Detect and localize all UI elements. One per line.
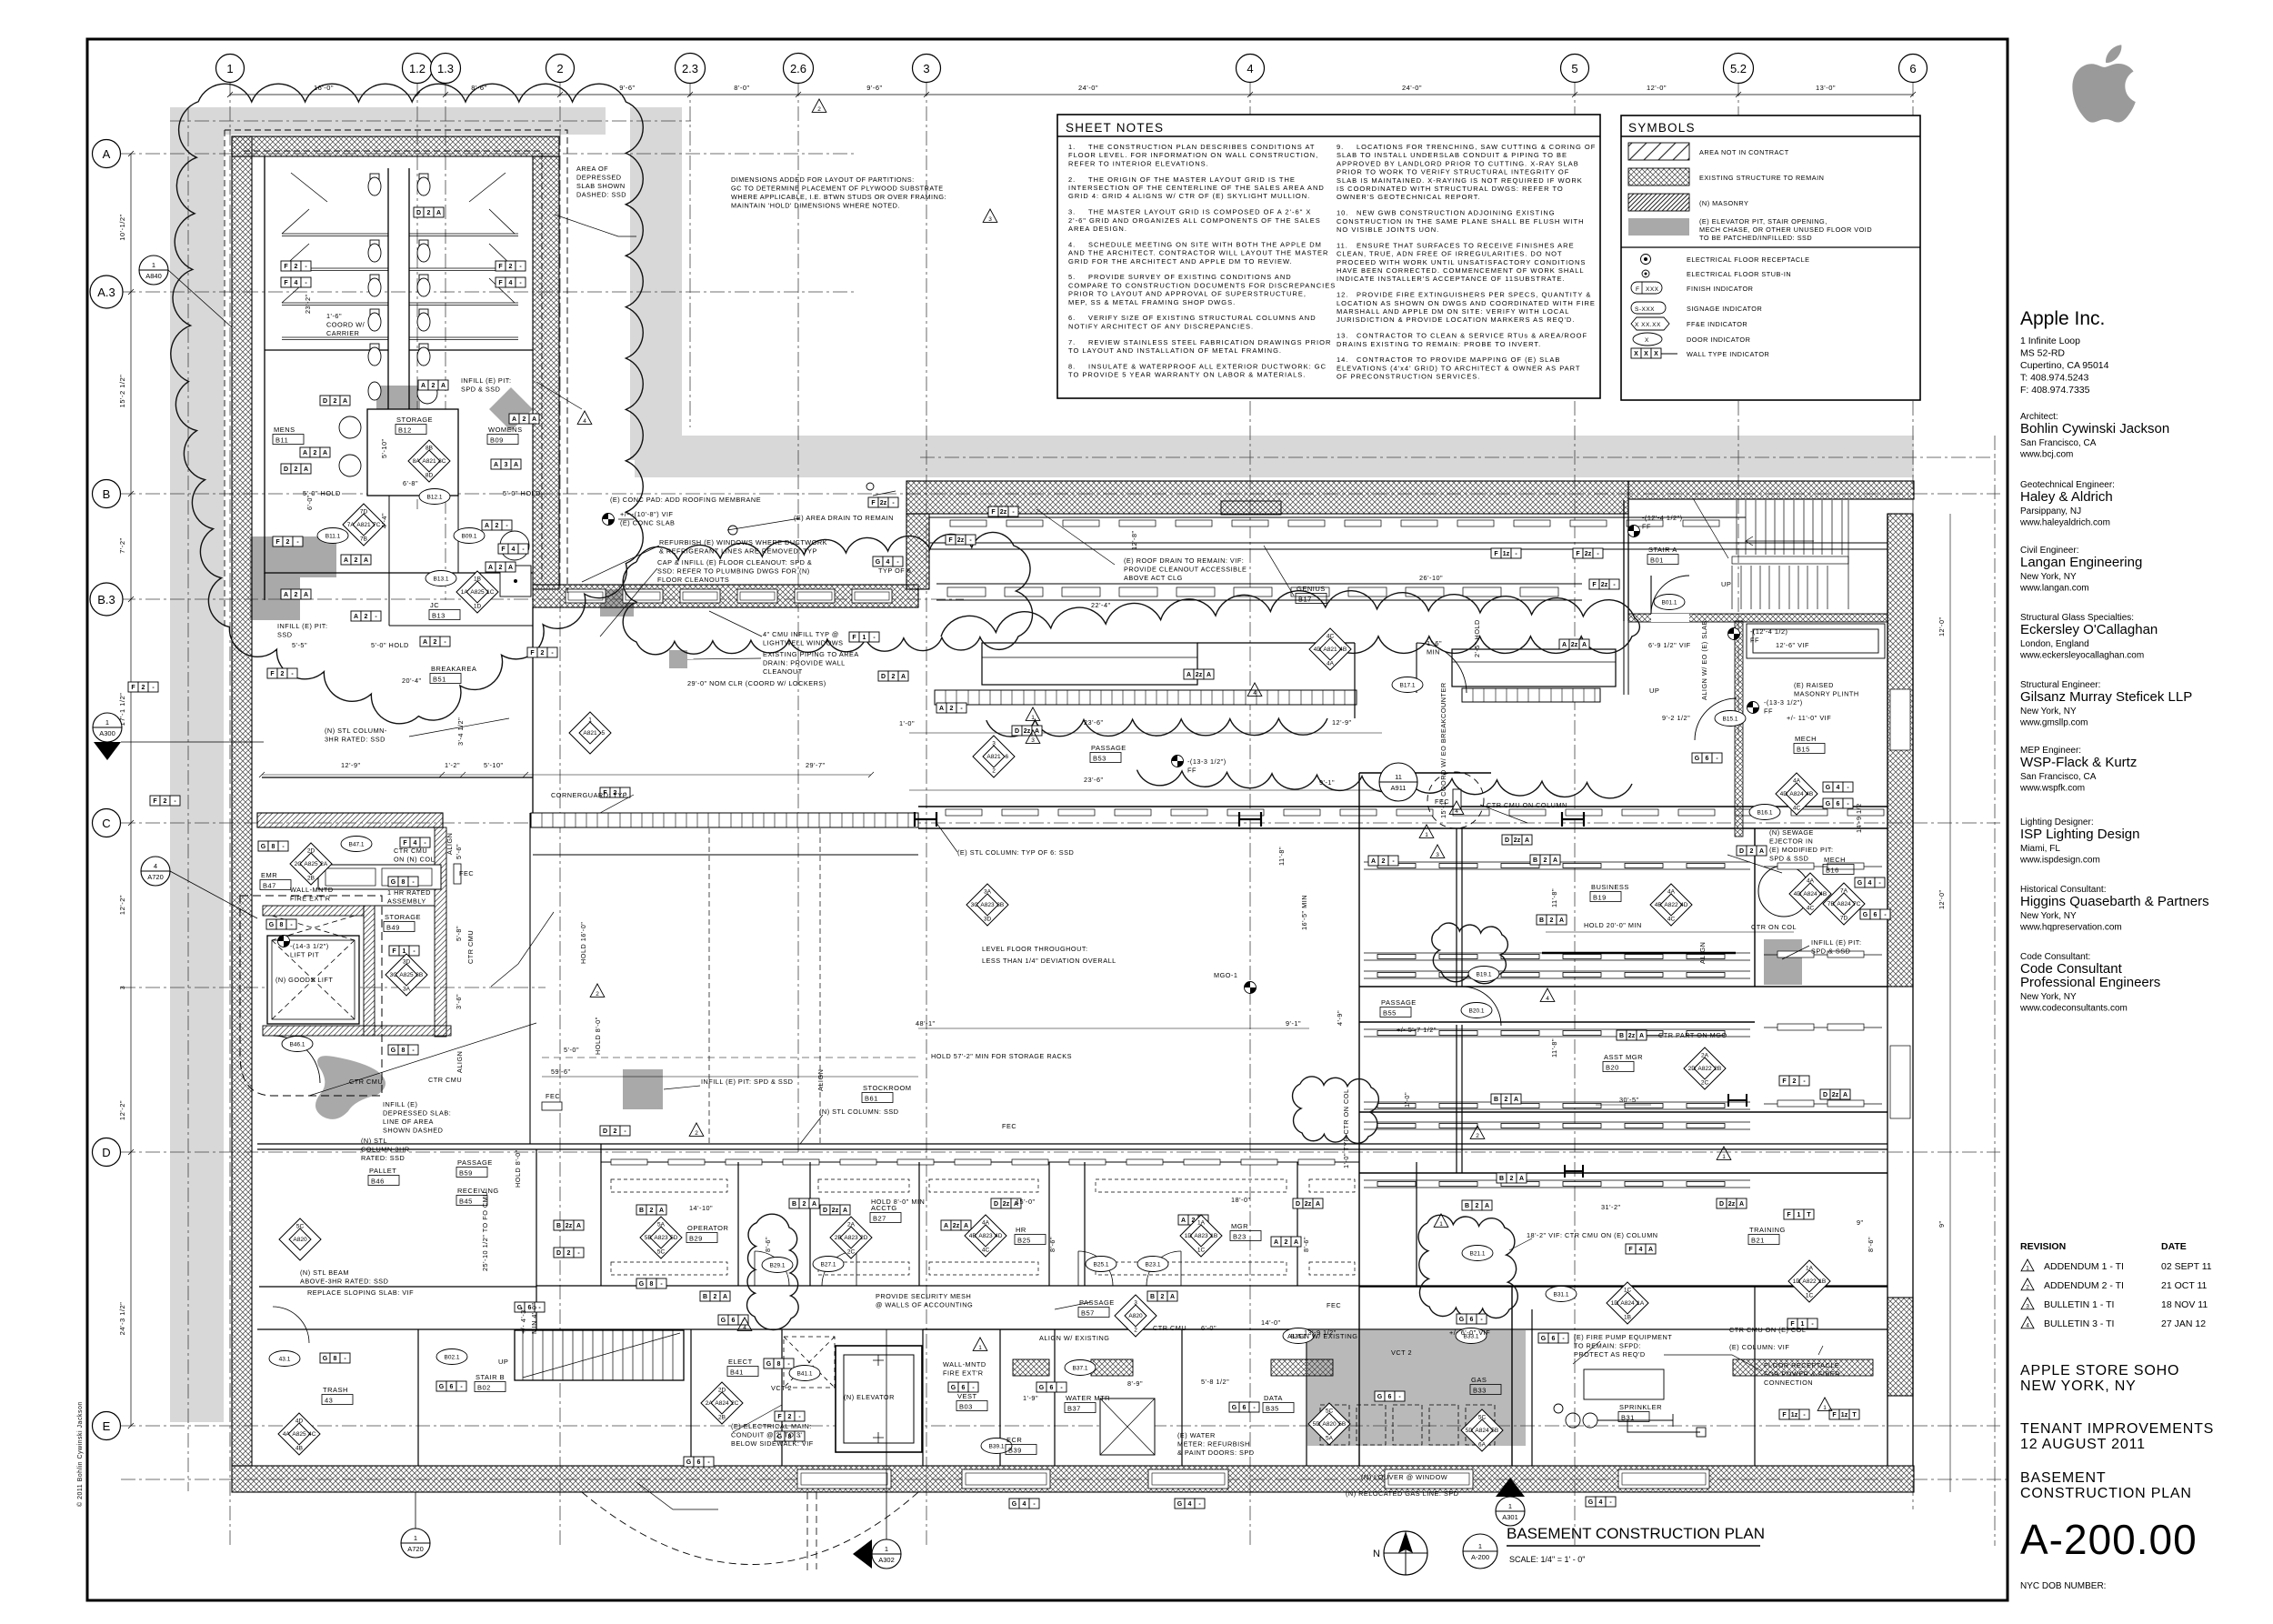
stair A room (1624, 500, 1628, 621)
svg-text:& REFRIGERANT LINES ARE REMOVE: & REFRIGERANT LINES ARE REMOVED: TYP (659, 547, 817, 556)
storefront lines (929, 517, 1887, 589)
infill pit toilet diamond (489, 387, 533, 431)
lightwell south wall (533, 585, 918, 607)
svg-text:2: 2 (714, 1294, 717, 1300)
svg-text:F: F (270, 671, 275, 677)
svg-text:1'-9": 1'-9" (1023, 1394, 1038, 1402)
svg-text:5'-10": 5'-10" (380, 438, 388, 458)
svg-text:B: B (703, 1294, 707, 1300)
svg-text:SLAB IS MAINTAINED. X-RAYING I: SLAB IS MAINTAINED. X-RAYING IS NOT REQU… (1337, 176, 1583, 185)
svg-text:(E) CONC PAD: ADD ROOFING MEMB: (E) CONC PAD: ADD ROOFING MEMBRANE (610, 496, 761, 504)
svg-text:6: 6 (1909, 62, 1916, 75)
svg-text:5'-10": 5'-10" (484, 761, 504, 769)
svg-text:Bohlin Cywinski Jackson: Bohlin Cywinski Jackson (2020, 421, 2169, 436)
svg-text:A911: A911 (1391, 784, 1407, 792)
svg-text:CAP & INFILL (E) FLOOR CLEANOU: CAP & INFILL (E) FLOOR CLEANOUT: SPD & (657, 558, 812, 566)
svg-text:2: 2 (541, 650, 545, 657)
svg-text:12'-9": 12'-9" (1332, 718, 1352, 727)
svg-text:2: 2 (434, 639, 437, 646)
legend area not in contract (1628, 143, 1689, 160)
svg-text:(N) STL BEAM: (N) STL BEAM (300, 1268, 349, 1277)
svg-text:WOMENS: WOMENS (488, 426, 523, 434)
svg-text:2C: 2C (731, 1400, 739, 1407)
elevator (836, 1346, 922, 1452)
svg-text:A: A (421, 383, 426, 389)
section marker A302 (872, 1539, 901, 1569)
svg-text:3: 3 (505, 462, 508, 468)
svg-text:A820: A820 (1322, 1421, 1337, 1428)
svg-text:BASEMENT CONSTRUCTION PLAN: BASEMENT CONSTRUCTION PLAN (1507, 1525, 1765, 1542)
svg-text:6: 6 (450, 1384, 454, 1390)
svg-text:F: F (153, 798, 157, 805)
svg-text:A: A (1553, 857, 1557, 864)
svg-text:2D: 2D (860, 1235, 868, 1241)
svg-text:AREA OF: AREA OF (576, 165, 608, 173)
svg-text:2z: 2z (566, 1223, 573, 1229)
svg-text:SCALE: 1/4" = 1' - 0": SCALE: 1/4" = 1' - 0" (1509, 1555, 1585, 1564)
svg-text:www.haleyaldrich.com: www.haleyaldrich.com (2019, 518, 2110, 528)
symbols box (1621, 115, 1920, 400)
receiving north line (533, 854, 918, 856)
svg-text:A: A (1371, 858, 1376, 865)
svg-text:5C: 5C (1478, 1414, 1487, 1420)
svg-text:PASSAGE: PASSAGE (1381, 998, 1417, 1007)
svg-text:2: 2 (2026, 1285, 2029, 1291)
svg-text:LOCATIONS FOR TRENCHING, SAW C: LOCATIONS FOR TRENCHING, SAW CUTTING & C… (1357, 143, 1596, 151)
svg-text:4: 4 (509, 280, 513, 286)
svg-text:GC TO DETERMINE PLACEMENT OF P: GC TO DETERMINE PLACEMENT OF PLYWOOD SUB… (731, 185, 944, 193)
svg-text:8: 8 (777, 1361, 781, 1368)
svg-text:29'-0" NOM CLR (COORD W/ LOCKE: 29'-0" NOM CLR (COORD W/ LOCKERS) (687, 679, 826, 687)
svg-text:3D: 3D (984, 917, 992, 923)
svg-text:RECEIVING: RECEIVING (457, 1187, 499, 1195)
svg-text:2z: 2z (957, 537, 965, 544)
svg-text:7D: 7D (360, 508, 368, 515)
svg-text:2: 2 (286, 539, 290, 546)
svg-text:A: A (843, 1208, 847, 1214)
svg-text:2: 2 (1510, 1176, 1514, 1182)
svg-text:22'-4": 22'-4" (1091, 601, 1111, 609)
svg-text:TO LAYOUT AND INSTALLATION OF: TO LAYOUT AND INSTALLATION OF METAL FRAM… (1068, 346, 1282, 355)
svg-text:13'-0": 13'-0" (1816, 84, 1836, 92)
svg-text:XXX: XXX (1646, 286, 1659, 293)
svg-text:Higgins Quasebarth & Partners: Higgins Quasebarth & Partners (2020, 894, 2209, 909)
genius bench strip (935, 690, 1357, 705)
svg-text:A720: A720 (147, 873, 164, 881)
svg-text:ELECTRICAL FLOOR RECEPTACLE: ELECTRICAL FLOOR RECEPTACLE (1687, 256, 1810, 264)
svg-text:A: A (1485, 1203, 1489, 1209)
svg-text:18'-0": 18'-0" (1231, 1196, 1251, 1204)
svg-text:B: B (639, 1208, 644, 1214)
svg-text:WATER MTR: WATER MTR (1066, 1394, 1110, 1402)
svg-text:B16.1: B16.1 (1757, 810, 1773, 817)
infill pit mech B16 (1764, 939, 1802, 985)
right block walls (1359, 773, 1887, 1466)
revision cloud genius top (941, 591, 1639, 654)
mech B15 west wall (1735, 621, 1743, 837)
svg-text:6'-9 1/2" VIF: 6'-9 1/2" VIF (1648, 641, 1691, 649)
svg-text:A-200: A-200 (1471, 1553, 1489, 1561)
south exterior wall (232, 1466, 1914, 1492)
svg-text:13.: 13. (1337, 332, 1348, 340)
svg-text:2: 2 (1476, 1133, 1479, 1139)
svg-text:B: B (1539, 917, 1544, 924)
svg-text:B20.1: B20.1 (1469, 1008, 1485, 1015)
svg-text:4B: 4B (1339, 647, 1347, 653)
svg-text:(N) STL COLUMN: SSD: (N) STL COLUMN: SSD (819, 1108, 898, 1116)
svg-text:G: G (1377, 1394, 1383, 1400)
svg-text:B46: B46 (371, 1178, 385, 1186)
svg-text:A: A (514, 462, 518, 468)
svg-text:+/- 4'-3": +/- 4'-3" (519, 1307, 527, 1334)
trash room door (273, 1307, 309, 1343)
svg-text:21 OCT 11: 21 OCT 11 (2161, 1280, 2208, 1291)
gray strip right of toilet block (630, 107, 682, 460)
south corridor wall (257, 1328, 1887, 1330)
left dimension string (128, 151, 134, 1429)
section marker A300 (93, 713, 122, 742)
svg-text:18'-2" VIF: CTR CMU ON (E) COL: 18'-2" VIF: CTR CMU ON (E) COLUMN (1527, 1231, 1658, 1239)
offices glass front (601, 1161, 1359, 1163)
svg-text:4: 4 (2026, 1323, 2029, 1329)
svg-text:3: 3 (988, 216, 992, 223)
svg-text:A: A (1187, 672, 1191, 678)
svg-text:2: 2 (523, 416, 526, 423)
svg-text:4C: 4C (1667, 917, 1676, 923)
svg-text:CONSTRUCTION PLAN: CONSTRUCTION PLAN (2020, 1486, 2192, 1501)
svg-text:15'-0": 15'-0" (1016, 1198, 1036, 1206)
svg-text:26'-10": 26'-10" (1419, 574, 1443, 582)
svg-text:(E) RAISED: (E) RAISED (1794, 681, 1834, 689)
svg-text:3A: 3A (403, 987, 411, 993)
svg-text:A: A (303, 450, 307, 456)
svg-text:9'-1": 9'-1" (1286, 1019, 1301, 1028)
svg-text:2'-6" GRID AND ORGANIZES ALL C: 2'-6" GRID AND ORGANIZES ALL COMPONENTS … (1068, 216, 1321, 225)
svg-text:F: F (403, 840, 407, 847)
svg-text:HOLD 20'-0" MIN: HOLD 20'-0" MIN (1584, 921, 1642, 929)
svg-text:B53: B53 (1093, 755, 1106, 763)
revision cloud training (1418, 1215, 1517, 1318)
svg-text:2z: 2z (1832, 1092, 1839, 1098)
dashed conduit arc (582, 1492, 918, 1565)
svg-text:12'-6" VIF: 12'-6" VIF (1776, 641, 1809, 649)
toilet block north wall (232, 136, 559, 156)
svg-text:B16: B16 (1826, 867, 1839, 875)
svg-text:3.: 3. (1068, 208, 1076, 216)
svg-text:1: 1 (1478, 1542, 1482, 1550)
svg-text:B02.1: B02.1 (445, 1355, 460, 1361)
office desk rows (611, 1179, 1355, 1275)
svg-text:(N) ELEVATOR: (N) ELEVATOR (844, 1393, 895, 1401)
svg-text:1: 1 (414, 1534, 417, 1542)
svg-text:F: F (392, 948, 396, 955)
svg-text:F: 408.974.7335: F: 408.974.7335 (2020, 385, 2090, 396)
svg-text:A: A (423, 639, 427, 646)
revision triangles (812, 99, 826, 112)
svg-text:7C: 7C (1853, 901, 1861, 907)
svg-text:NEW GWB CONSTRUCTION ADJOINING: NEW GWB CONSTRUCTION ADJOINING EXISTING (1357, 209, 1556, 217)
svg-text:STOCKROOM: STOCKROOM (863, 1084, 912, 1092)
sewage ejector circle (1758, 866, 1809, 917)
svg-text:(N) GOODS LIFT: (N) GOODS LIFT (275, 976, 333, 984)
svg-text:4D: 4D (295, 1418, 304, 1424)
svg-text:2z: 2z (1514, 837, 1521, 844)
stair vestibule wall below (1624, 621, 1628, 695)
svg-text:5C: 5C (296, 1223, 305, 1229)
svg-text:2: 2 (499, 565, 503, 571)
infill pit breakarea (600, 589, 634, 617)
grid bubbles left (93, 140, 121, 168)
svg-text:B11: B11 (275, 436, 288, 445)
svg-text:4: 4 (1023, 1501, 1026, 1508)
svg-text:FLOOR LEVEL. FOR INFORMATION O: FLOOR LEVEL. FOR INFORMATION ON WALL CON… (1068, 151, 1318, 159)
svg-text:BREAKAREA: BREAKAREA (431, 665, 476, 673)
svg-text:A: A (323, 450, 327, 456)
svg-text:(N) MASONRY: (N) MASONRY (1699, 199, 1748, 207)
svg-text:TO PROVIDE 5 YEAR WARRANTY ON: TO PROVIDE 5 YEAR WARRANTY ON LABOR & MA… (1068, 371, 1306, 379)
svg-text:B13: B13 (432, 612, 446, 620)
breakarea counter + sinks (318, 865, 441, 889)
FF&E diamonds (408, 440, 450, 482)
gas dashed equipment (1320, 1405, 1495, 1445)
right property line (1994, 436, 1996, 1546)
svg-text:15'-1" COORD W/ EO BREAKCOUNTE: 15'-1" COORD W/ EO BREAKCOUNTER (1439, 682, 1447, 818)
svg-text:REFER TO INTERIOR ELEVATIONS.: REFER TO INTERIOR ELEVATIONS. (1068, 159, 1209, 167)
svg-text:CTR CMU: CTR CMU (394, 847, 427, 855)
legend ff&e indicator (1631, 317, 1669, 330)
svg-text:OPERATOR: OPERATOR (687, 1224, 728, 1232)
svg-text:3: 3 (1031, 737, 1035, 744)
svg-text:5C: 5C (1326, 1408, 1334, 1414)
svg-text:G: G (1826, 801, 1831, 807)
svg-text:B57: B57 (1081, 1309, 1095, 1318)
svg-text:B19: B19 (1593, 894, 1607, 902)
svg-text:2: 2 (1161, 1294, 1165, 1300)
svg-text:ISP Lighting Design: ISP Lighting Design (2020, 827, 2139, 842)
svg-text:1: 1 (885, 1545, 888, 1553)
svg-text:B.3: B.3 (97, 593, 115, 606)
svg-text:MIN: MIN (1427, 648, 1440, 657)
svg-text:4B: 4B (1806, 791, 1813, 797)
svg-text:2A: 2A (706, 1400, 714, 1407)
svg-text:F: F (1494, 551, 1498, 557)
svg-text:F: F (1782, 1412, 1787, 1418)
svg-text:F: F (1636, 286, 1639, 293)
svg-text:B49: B49 (386, 924, 400, 932)
corridor locker band (531, 813, 918, 827)
svg-text:4: 4 (1868, 880, 1872, 887)
svg-text:PROVIDE FIRE EXTINGUISHERS PER: PROVIDE FIRE EXTINGUISHERS PER SPECS, QU… (1357, 291, 1591, 299)
svg-text:CONTRACTOR TO CLEAN & SERVICE: CONTRACTOR TO CLEAN & SERVICE RTUs & ARE… (1357, 332, 1587, 340)
svg-text:WALL TYPE INDICATOR: WALL TYPE INDICATOR (1687, 350, 1769, 358)
svg-text:2A: 2A (1701, 1052, 1709, 1058)
svg-text:1'-0": 1'-0" (899, 719, 915, 727)
svg-text:B01: B01 (1650, 556, 1664, 565)
svg-text:STAIR A: STAIR A (1648, 546, 1677, 554)
svg-text:B31.1: B31.1 (1554, 1292, 1569, 1298)
svg-text:EXISTING STRUCTURE TO REMAIN: EXISTING STRUCTURE TO REMAIN (1699, 174, 1824, 182)
svg-text:D: D (323, 398, 327, 405)
svg-text:B27: B27 (873, 1215, 886, 1223)
svg-text:D: D (1719, 1201, 1724, 1208)
svg-text:8: 8 (334, 1356, 337, 1362)
svg-text:SLAB SHOWN: SLAB SHOWN (576, 182, 626, 190)
svg-text:6: 6 (732, 1318, 736, 1324)
svg-text:6: 6 (1706, 756, 1709, 762)
svg-text:5B: 5B (1338, 1421, 1346, 1428)
svg-text:1D: 1D (1611, 1300, 1619, 1307)
svg-text:G: G (261, 844, 266, 850)
svg-text:8'-6": 8'-6" (1867, 1237, 1875, 1252)
svg-text:2: 2 (142, 685, 145, 691)
depressed slab dashed outline (225, 130, 567, 627)
svg-text:24'-0": 24'-0" (1078, 84, 1098, 92)
svg-text:2: 2 (1134, 1328, 1137, 1334)
svg-text:GAS: GAS (1471, 1376, 1487, 1384)
sidewalk vault gray band top (170, 107, 606, 135)
svg-text:5.: 5. (1068, 273, 1076, 281)
svg-text:VCT 2: VCT 2 (1391, 1348, 1412, 1357)
svg-text:1z: 1z (1841, 1412, 1848, 1418)
svg-text:A: A (1274, 1239, 1278, 1246)
svg-text:B37.1: B37.1 (1073, 1366, 1088, 1372)
svg-text:PROCEED WITH WORK UNTIL UNSATI: PROCEED WITH WORK UNTIL UNSATISFACTORY C… (1337, 258, 1586, 266)
svg-text:14'-0": 14'-0" (1261, 1318, 1281, 1327)
svg-text:FEC: FEC (1002, 1122, 1016, 1130)
infill pit lightwell (669, 650, 687, 668)
masonry plinth (1747, 624, 1885, 658)
svg-text:4A: 4A (283, 1431, 291, 1438)
svg-text:6: 6 (1874, 912, 1877, 918)
svg-text:D: D (1505, 837, 1509, 844)
svg-text:B: B (103, 487, 111, 501)
storage B49 walls (375, 813, 530, 1144)
svg-text:Eckersley O'Callaghan: Eckersley O'Callaghan (2020, 622, 2158, 637)
svg-text:31'-2": 31'-2" (1601, 1203, 1621, 1211)
svg-text:DEPRESSED SLAB:: DEPRESSED SLAB: (383, 1109, 451, 1118)
svg-text:5A: 5A (657, 1221, 666, 1228)
svg-text:G: G (391, 1048, 396, 1054)
svg-text:A: A (436, 210, 441, 216)
svg-text:6: 6 (1388, 1394, 1392, 1400)
svg-text:A824: A824 (1789, 791, 1804, 797)
svg-text:G: G (391, 879, 396, 886)
svg-text:A: A (304, 466, 308, 473)
svg-text:G: G (323, 1356, 328, 1362)
svg-text:4B: 4B (295, 1446, 303, 1452)
svg-text:2.6: 2.6 (790, 62, 806, 75)
svg-text:1: 1 (1031, 715, 1035, 721)
EMR east wall (435, 827, 446, 1037)
svg-text:UP: UP (1649, 687, 1659, 695)
svg-text:59'-6": 59'-6" (551, 1068, 571, 1076)
svg-text:1: 1 (588, 717, 592, 723)
svg-text:A: A (1559, 917, 1564, 924)
svg-text:7B: 7B (360, 536, 367, 543)
svg-text:COLUMN-3HR: COLUMN-3HR (361, 1146, 410, 1154)
svg-text:A: A (1519, 1176, 1524, 1182)
svg-text:4'-9": 4'-9" (1336, 1010, 1344, 1026)
svg-text:4" CMU INFILL TYP @: 4" CMU INFILL TYP @ (763, 630, 839, 638)
svg-text:F: F (501, 546, 506, 553)
svg-text:4C: 4C (982, 1248, 990, 1254)
svg-text:VCT 2: VCT 2 (771, 1384, 792, 1392)
svg-text:B17: B17 (1298, 596, 1312, 604)
svg-text:PASSAGE: PASSAGE (457, 1158, 493, 1167)
svg-text:1C: 1C (486, 589, 495, 596)
svg-text:B02: B02 (477, 1384, 491, 1392)
svg-text:(E) ELECTRICAL MAIN:: (E) ELECTRICAL MAIN: (731, 1422, 812, 1430)
leader lines (309, 215, 1823, 1509)
svg-text:11: 11 (1395, 773, 1402, 781)
svg-text:5: 5 (601, 730, 605, 737)
svg-text:2: 2 (295, 466, 298, 473)
svg-text:2z: 2z (880, 500, 887, 506)
svg-text:G: G (876, 559, 881, 566)
svg-text:7D: 7D (1840, 916, 1848, 922)
storage B12 room (367, 409, 458, 496)
svg-text:B31: B31 (1621, 1414, 1635, 1422)
svg-text:PALLET: PALLET (369, 1167, 396, 1175)
svg-text:6: 6 (1050, 1385, 1054, 1391)
svg-text:13'-9 1/2": 13'-9 1/2" (1304, 1328, 1337, 1337)
svg-text:2.: 2. (1068, 175, 1076, 184)
svg-text:GENIUS: GENIUS (1297, 585, 1326, 593)
svg-text:TO BE PATCHED/INFILLED: SSD: TO BE PATCHED/INFILLED: SSD (1699, 234, 1812, 242)
svg-text:1'-2": 1'-2" (445, 761, 460, 769)
svg-text:2: 2 (614, 1128, 617, 1135)
svg-text:CLEAN, TRUE, ADN FREE OF IRREG: CLEAN, TRUE, ADN FREE OF IRREGULARITIES.… (1337, 250, 1563, 258)
svg-text:GRID 4: GRID 4 ALIGNS W/ CTR O: GRID 4: GRID 4 ALIGNS W/ CTR OF (E) SKYL… (1068, 192, 1310, 200)
west exterior wall (232, 136, 252, 1466)
legend finish indicator (1631, 282, 1662, 294)
svg-text:F: F (498, 280, 503, 286)
svg-text:INFILL (E): INFILL (E) (383, 1100, 417, 1108)
svg-text:A821: A821 (356, 522, 371, 528)
revision cloud genius bottom (986, 718, 1327, 737)
sheet notes box (1057, 115, 1600, 398)
svg-text:1D: 1D (1185, 1233, 1193, 1239)
svg-text:SPRINKLER: SPRINKLER (1619, 1403, 1662, 1411)
svg-text:A: A (1316, 1201, 1320, 1208)
svg-text:B: B (1619, 1033, 1624, 1039)
svg-text:A: A (659, 1208, 664, 1214)
svg-text:5D: 5D (1313, 1421, 1321, 1428)
svg-text:MGO-1: MGO-1 (1214, 971, 1237, 979)
svg-text:2: 2 (1505, 1097, 1508, 1103)
section marker A301 (1496, 1497, 1525, 1526)
svg-text:ALIGN W/ EO (E) SLAB: ALIGN W/ EO (E) SLAB (1700, 620, 1708, 700)
svg-text:B21: B21 (1751, 1237, 1765, 1245)
svg-text:A: A (488, 565, 493, 571)
svg-text:www.gmsllp.com: www.gmsllp.com (2019, 718, 2088, 728)
svg-text:4: 4 (886, 559, 890, 566)
svg-text:6: 6 (697, 1459, 701, 1466)
svg-text:12'-0": 12'-0" (1938, 889, 1946, 909)
svg-text:B55: B55 (1383, 1009, 1397, 1018)
svg-text:20'-4": 20'-4" (402, 677, 422, 685)
svg-text:2: 2 (281, 671, 285, 677)
toilet fixtures (339, 174, 437, 476)
svg-text:3: 3 (1436, 852, 1439, 858)
svg-text:3C: 3C (390, 972, 398, 978)
svg-text:1A: 1A (1806, 1265, 1814, 1271)
svg-text:F: F (275, 539, 280, 546)
svg-text:A: A (1843, 1092, 1847, 1098)
svg-text:F: F (284, 264, 288, 270)
svg-text:PROVIDE SECURITY MESH: PROVIDE SECURITY MESH (876, 1292, 971, 1300)
svg-text:SYMBOLS: SYMBOLS (1628, 121, 1696, 135)
